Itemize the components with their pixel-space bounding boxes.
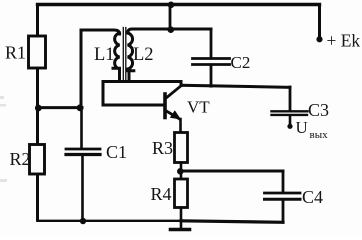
wire tank top to C2 — [170, 28, 211, 31]
svg-text:R4: R4 — [151, 184, 172, 204]
wire C1 branch upper — [80, 108, 83, 148]
wire L1 top lead — [81, 30, 120, 34]
svg-text:L2: L2 — [133, 45, 154, 65]
capacitor C2 — [193, 57, 230, 60]
wire R4 bottom lead — [180, 208, 183, 229]
wire C1 branch lower — [81, 156, 84, 221]
node Uvyh output — [287, 124, 292, 129]
node tank top junction — [168, 26, 175, 33]
ground — [171, 228, 190, 232]
svg-text:C2: C2 — [231, 53, 251, 72]
wire collector jog — [180, 82, 183, 86]
svg-text:+ Ek: + Ek — [327, 31, 361, 51]
svg-text:C4: C4 — [302, 187, 323, 207]
capacitor C1 — [66, 148, 100, 151]
svg-text:VT: VT — [187, 98, 210, 117]
wire C2 top drop — [210, 29, 213, 57]
inductor L1 — [113, 33, 120, 81]
svg-text:вых: вых — [310, 129, 329, 141]
wire base lead — [103, 104, 164, 107]
capacitor C4 — [265, 192, 301, 195]
wire collector rail — [181, 85, 290, 87]
svg-text:L1: L1 — [94, 45, 115, 65]
wire R3 bottom lead — [180, 163, 183, 180]
wire C2 bottom drop — [210, 66, 213, 86]
wire under-winding feedback — [103, 80, 181, 83]
node divider right — [77, 104, 84, 111]
resistor R2 — [30, 145, 45, 175]
resistor R1 — [29, 36, 46, 68]
wire top rail — [38, 3, 320, 6]
wire left rail — [36, 5, 39, 221]
wire bottom rail right — [181, 221, 283, 223]
wire +Ek drop — [318, 5, 321, 40]
svg-text:R3: R3 — [152, 138, 173, 158]
wire bottom rail left — [38, 220, 182, 222]
wire base branch vertical — [102, 82, 105, 106]
svg-text:R2: R2 — [10, 149, 31, 169]
wire C3 output stub — [289, 116, 292, 126]
svg-text:C3: C3 — [308, 100, 329, 120]
wire L2 top lead — [128, 29, 170, 33]
wire mid wire R1-R2 node — [38, 106, 83, 109]
node +Ek terminal — [316, 36, 322, 42]
transistor VT — [165, 86, 210, 120]
wire C4 bottom drop — [282, 201, 285, 222]
node top rail junction — [168, 2, 175, 9]
resistor R4 — [175, 179, 188, 208]
wire L1 feed vertical — [80, 30, 83, 107]
svg-text:R1: R1 — [5, 43, 26, 63]
capacitor C3 — [289, 87, 292, 110]
node C1 bottom junction — [80, 218, 86, 224]
inductor L2 — [128, 33, 134, 81]
node divider left — [35, 105, 42, 112]
wire emitter drop — [179, 119, 182, 133]
wire C4 top drop — [282, 171, 285, 192]
svg-text:C1: C1 — [106, 142, 127, 162]
node emitter divider — [177, 168, 184, 175]
resistor R3 — [175, 133, 188, 163]
wire tank top drop — [169, 5, 172, 30]
wire C4 top branch — [181, 170, 283, 173]
core — [123, 28, 126, 82]
svg-text:U: U — [296, 118, 308, 137]
